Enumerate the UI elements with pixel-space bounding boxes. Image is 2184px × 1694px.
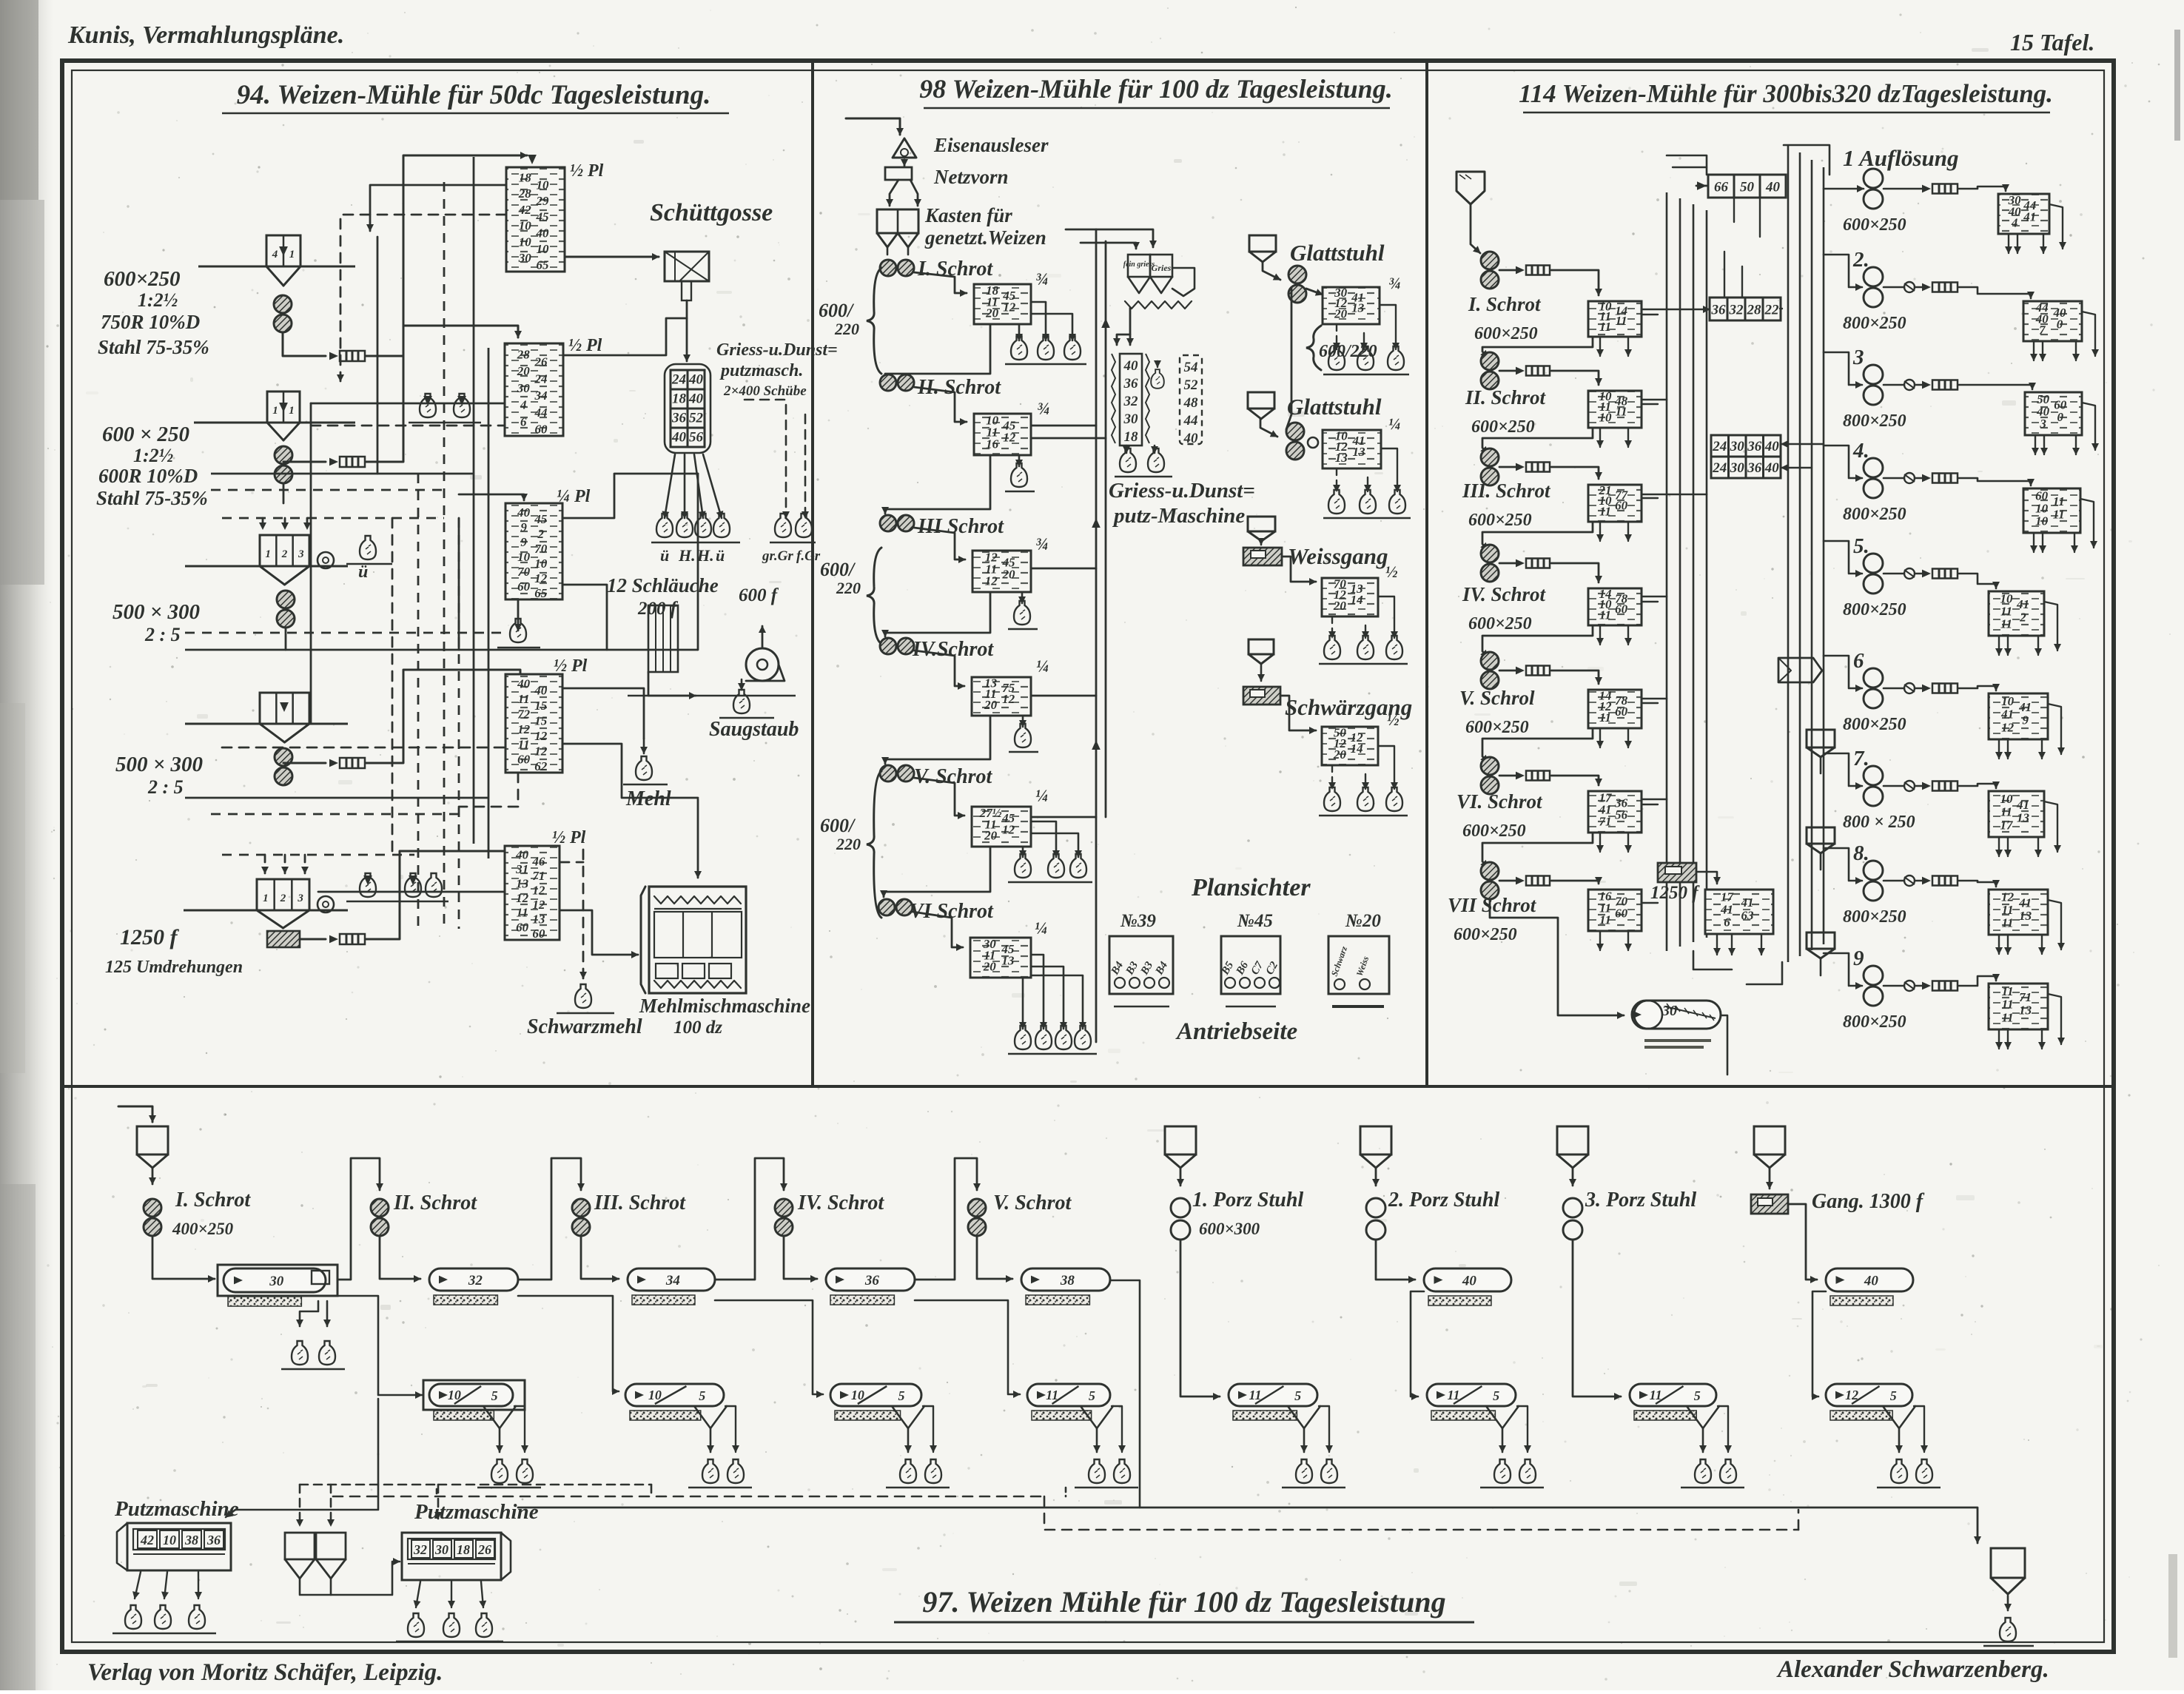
svg-text:32: 32 [1123,394,1139,409]
svg-text:Saugstaub: Saugstaub [709,718,799,741]
reel 10/5 row2 at x845 [625,1384,724,1406]
roller mill passage 3 panel3 [1864,365,1883,384]
roller mill passage 7 panel3 [1864,766,1883,785]
roller mill I Schrot 97 [144,1199,161,1217]
sifter box VII Schrot [1588,890,1642,931]
hopper 1. Porz Stuhl [1165,1126,1196,1154]
svg-text:V. Schrot: V. Schrot [914,765,993,788]
roller mill V. Schrot 97 [968,1199,986,1217]
wire G1 down to G2 [1286,289,1291,429]
svg-text:10: 10 [517,550,531,564]
Netzvorr box [885,167,912,180]
wire extra mesh f [377,237,379,474]
plansifter P5 [505,846,560,940]
svg-text:20: 20 [1334,306,1348,320]
svg-text:¾: ¾ [1037,400,1049,418]
svg-text:№39: №39 [1120,911,1156,931]
sifter I output sacks [1018,326,1021,340]
svg-text:12: 12 [2001,890,2015,904]
hopper D feed line [185,723,348,725]
svg-text:III. Schrot: III. Schrot [1462,480,1551,502]
wire long horizontal y640 [211,473,474,475]
brace 600/220 upper [867,268,881,374]
wire right trunk to Griess dashed [565,392,681,474]
wire E riser to P5 [366,851,518,939]
svg-text:1250 f: 1250 f [1650,883,1700,903]
wire A to sifter P1 [283,333,326,356]
svg-text:40: 40 [1864,1274,1879,1289]
wire VII rolls to reel [1490,900,1624,1015]
sacks near E [360,873,376,897]
svg-text:10: 10 [448,1388,461,1402]
svg-text:60: 60 [517,579,531,594]
svg-text:60: 60 [1615,602,1628,616]
svg-text:1: 1 [272,405,278,417]
roller mill 1. Porz Stuhl [1171,1198,1190,1217]
svg-text:12: 12 [1845,1388,1858,1402]
reel 40 b [1826,1268,1913,1291]
sifter passage 5 outputs [1998,636,2000,655]
connector reel30 to reel row2 no1 [304,1296,422,1395]
svg-text:5: 5 [491,1388,498,1403]
svg-text:800×250: 800×250 [1843,1012,1906,1032]
svg-text:24: 24 [1712,460,1727,476]
sifter box G2 [1323,430,1381,468]
svg-text:65: 65 [534,586,548,600]
sifter box II. Schrot [1588,391,1642,428]
svg-text:36: 36 [864,1273,880,1288]
fan at hopper E [317,896,334,912]
svg-text:60: 60 [532,927,545,941]
wire long horizontal y878 [185,649,286,651]
svg-text:41: 41 [2000,707,2014,722]
svg-text:22: 22 [1764,302,1780,317]
svg-text:30: 30 [1730,439,1745,454]
svg-text:11: 11 [518,737,530,751]
valve D [329,759,338,767]
wire trunk to passage 9 [1824,953,1862,986]
svg-text:12: 12 [516,891,529,905]
sack Saugstaub [741,679,743,690]
svg-text:600/220: 600/220 [1319,342,1377,361]
reel 11/5 row2 at x1660 [1229,1384,1317,1406]
wire loop to IV. Schrot 97 [715,1158,784,1280]
dashed feed to gr sacks [745,400,786,451]
svg-text:11: 11 [1616,314,1627,328]
roller mill passage 4 panel3 [1864,458,1883,477]
panel divider horizontal [64,1085,2112,1088]
wire C out [285,628,287,650]
wire A riser [366,155,527,356]
svg-text:4: 4 [2011,216,2018,230]
svg-text:54: 54 [1184,360,1198,375]
sacks under reel x1928 [1494,1459,1511,1483]
roller mill II Schrot [880,374,896,391]
sifter V sacks [1022,848,1024,857]
panel divider vertical left [811,62,814,1086]
wire IV. Schrot to reel [784,1237,817,1279]
svg-text:32: 32 [1729,302,1744,317]
wire fan to Saugstaub sack [710,696,737,705]
svg-text:9: 9 [2022,713,2029,727]
svg-text:24: 24 [1712,439,1727,454]
roller mill III. Schrot 97 [572,1199,590,1217]
svg-text:Gang. 1300 f: Gang. 1300 f [1812,1190,1925,1213]
svg-text:Kunis, Vermahlungspläne.: Kunis, Vermahlungspläne. [67,21,344,49]
central trunk group B verticals [1787,145,1790,962]
long collection wire solid [518,1508,1978,1543]
wire III to sifter [914,528,965,559]
Mehlmischmaschine body [649,887,746,993]
svg-text:28: 28 [517,347,531,361]
svg-text:¼: ¼ [1388,414,1401,433]
wire Schwaerzgang to box [1280,696,1316,730]
funnel under reel at x1928 [1486,1406,1519,1428]
svg-text:20: 20 [983,960,997,974]
svg-text:65: 65 [536,258,549,272]
wire E out [300,938,326,941]
svg-text:12: 12 [534,571,548,585]
sifter III. Schrot output arrows [1599,522,1601,541]
reel 34 [628,1268,715,1291]
Schuettgosse box [665,252,709,281]
svg-text:Schwarzmehl: Schwarzmehl [527,1015,642,1038]
svg-text:Putzmaschine: Putzmaschine [114,1497,239,1521]
grid box 24 30 36 40 double [1711,435,1729,457]
svg-text:600 × 250: 600 × 250 [102,423,189,446]
svg-text:6: 6 [1853,649,1864,673]
zigzag sieve strip [1125,301,1192,309]
hopper panel3 top left [1456,172,1485,204]
panel divider vertical right [1425,62,1428,1086]
svg-text:V. Schrol: V. Schrol [1459,687,1535,709]
hopper E [257,879,309,910]
sifter box passage 7 [1989,791,2044,837]
svg-text:62: 62 [534,759,548,773]
svg-text:1 Auflösung: 1 Auflösung [1843,145,1959,171]
svg-text:11: 11 [517,906,528,920]
svg-text:VII Schrot: VII Schrot [1448,894,1537,916]
wire II. Schrot to reel [380,1237,420,1279]
svg-text:41: 41 [2018,700,2032,714]
wire passage 6 to sifter [1904,683,1915,693]
svg-text:10: 10 [2001,694,2015,708]
svg-text:½: ½ [1387,710,1400,729]
return wire I to II [885,324,990,386]
svg-text:38: 38 [184,1533,198,1547]
G1 sacks [1336,324,1337,349]
plansifter P4 [505,674,562,773]
svg-text:52: 52 [1184,377,1199,393]
wires to Kasten [890,180,898,206]
svg-text:40: 40 [534,684,548,698]
tube bundle 12 Schlaeuche [648,605,678,672]
svg-text:40: 40 [517,676,531,690]
svg-text:600/: 600/ [820,559,856,580]
svg-text:10: 10 [536,242,549,256]
svg-text:20: 20 [985,306,999,320]
svg-text:32: 32 [413,1542,427,1557]
feingriess hopper left [1128,255,1150,277]
Gang 1300f stone [1751,1194,1788,1214]
detacheur tall box [1120,354,1142,446]
Schwaerzgang gang stone [1243,687,1280,705]
svg-text:41: 41 [2016,597,2029,611]
svg-text:42: 42 [518,203,532,217]
svg-text:9: 9 [520,535,527,549]
wire passage 1 to sifter [1884,188,1924,190]
wire passage 4 to sifter [1904,473,1915,483]
svg-text:13: 13 [516,877,529,891]
hopper B feed line [194,422,355,424]
wire extra mesh g [392,518,394,855]
svg-text:IV. Schrot: IV. Schrot [797,1191,884,1214]
svg-text:11: 11 [1599,608,1611,622]
svg-text:36: 36 [671,411,687,426]
svg-text:20: 20 [1333,599,1347,613]
funnel under reel at x1388 [1081,1406,1113,1428]
hopper Weissgang [1248,517,1275,531]
wire passage 9 to sifter [1904,981,1915,991]
wire II to sifter [914,387,967,422]
sifter box IV [972,677,1031,716]
svg-text:34: 34 [665,1273,680,1288]
svg-text:60: 60 [1615,907,1628,921]
trunk horizontal ties [1642,309,1710,311]
svg-text:11: 11 [1046,1388,1058,1402]
wire dashed vertical x620 [458,518,460,929]
sifter IV sack [1022,717,1024,727]
svg-text:220: 220 [836,579,861,597]
hopper A feed line [198,266,355,268]
svg-text:60: 60 [1615,705,1628,719]
valve IV. Schrot [1499,562,1516,565]
hopper D [260,693,309,724]
svg-text:52: 52 [689,411,704,426]
hopper C feed line [185,565,348,568]
sifter box passage 8 [1989,890,2048,935]
svg-text:600×250: 600×250 [1468,511,1532,530]
brace 600/220 G1 [1306,326,1321,370]
svg-text:1. Porz Stuhl: 1. Porz Stuhl [1192,1189,1303,1211]
svg-text:13: 13 [1352,445,1365,459]
sifter box passage 4 [2023,488,2080,533]
svg-text:№20: №20 [1345,911,1381,931]
svg-text:Mehl: Mehl [625,787,671,810]
svg-text:11: 11 [2053,494,2065,508]
svg-text:13: 13 [1001,953,1015,967]
svg-text:Stahl 75-35%: Stahl 75-35% [98,336,209,358]
Weissgang gang stone [1243,548,1282,565]
svg-text:32: 32 [468,1273,483,1288]
funnel under reel at x1660 [1288,1406,1320,1428]
svg-text:20: 20 [1333,747,1347,762]
svg-text:41: 41 [2023,209,2036,223]
connector reel36 to row2 no4 [915,1300,1020,1394]
svg-text:f.Gr: f.Gr [796,548,821,564]
valve I. Schrot [1499,269,1516,272]
svg-text:40: 40 [535,226,549,240]
svg-text:600×250: 600×250 [104,267,181,291]
svg-text:H.: H. [678,546,696,565]
svg-text:6: 6 [520,414,527,428]
reel 40 a [1424,1268,1511,1291]
svg-text:600/: 600/ [819,300,855,321]
wire dashed hopper feeds top [262,518,264,529]
svg-text:1250 f: 1250 f [120,925,180,949]
svg-text:38: 38 [1060,1273,1075,1288]
svg-text:12: 12 [1003,431,1016,445]
roller mill passage 6 panel3 [1864,668,1883,688]
svg-text:29: 29 [535,194,549,208]
wire long horizontal y855 dashed [185,632,503,634]
detacheur zigzag sides [1112,354,1115,443]
svg-text:600/: 600/ [820,815,856,836]
svg-text:4.: 4. [1852,439,1869,463]
svg-text:ü: ü [660,546,669,565]
svg-text:600×250: 600×250 [1454,925,1517,944]
svg-text:36: 36 [1123,376,1139,391]
dashed drop to Schwarzmehl [582,850,585,978]
svg-text:14: 14 [1351,742,1363,756]
svg-text:40: 40 [1123,358,1139,374]
svg-text:45: 45 [534,512,548,526]
wire vertical feed x943 upper [697,474,699,650]
wire long horizontal y1078 [185,797,488,799]
svg-text:11: 11 [2053,507,2065,521]
svg-text:24: 24 [671,372,686,388]
svg-text:¼: ¼ [1035,919,1047,938]
hopper above passage 7 [1807,730,1835,747]
svg-text:Stahl 75-35%: Stahl 75-35% [96,487,208,509]
svg-text:56: 56 [689,430,704,446]
svg-text:800×250: 800×250 [1843,314,1906,333]
sifter box passage 9 [1989,984,2048,1029]
wire porz3 to its row2 reel [1573,1240,1621,1396]
svg-text:7: 7 [2039,323,2046,337]
wire VI. Schrot to sifter [1551,776,1599,785]
svg-text:600×300: 600×300 [1199,1220,1260,1238]
reel 30 outlet sacks [300,1301,318,1326]
central trunk verticals [1095,229,1098,1042]
sacks under reel x1660 [1296,1459,1312,1483]
svg-text:15: 15 [534,699,548,713]
svg-text:Mehlmischmaschine: Mehlmischmaschine [639,995,810,1017]
svg-text:600×250: 600×250 [1843,215,1906,235]
svg-text:9: 9 [1853,947,1864,970]
svg-text:36: 36 [1747,439,1762,454]
wire I. Schrot to sifter [1551,270,1599,295]
svg-text:40: 40 [517,505,531,520]
svg-text:13: 13 [532,912,545,927]
tube bundle outlet [648,672,696,696]
svg-text:40: 40 [688,372,704,388]
funnel under reel at x1122 [892,1406,924,1428]
roller mill D [275,748,292,766]
hopper Schwaerzgang [1249,639,1274,654]
brace 600/220 mid [867,548,881,644]
svg-text:10: 10 [534,557,548,571]
wire V. Schrol to sifter [1551,670,1599,684]
wire top bundle horizontals [1784,145,1829,175]
svg-text:15: 15 [534,714,548,728]
Putzmaschine 2 sacks [416,1582,420,1607]
svg-text:12 Schläuche: 12 Schläuche [607,574,719,596]
svg-text:9: 9 [520,520,527,534]
svg-text:11: 11 [518,692,530,706]
sacks under reel x2202 [1695,1459,1711,1483]
wire trunk to passage 6 [1824,656,1862,688]
svg-text:2: 2 [281,548,288,560]
svg-text:1:2½: 1:2½ [133,445,173,466]
svg-text:11: 11 [2002,1010,2014,1024]
sifter III sack [1021,594,1024,603]
hopper B [267,391,300,423]
return wire IV. Schrot loop [1482,625,1593,657]
svg-text:7.: 7. [1853,747,1869,770]
svg-text:II. Schrot: II. Schrot [1465,386,1547,409]
sifter IV. Schrot output arrows [1599,625,1601,645]
svg-text:5: 5 [1294,1388,1301,1403]
svg-text:98 Weizen-Mühle für 100 dz Tag: 98 Weizen-Mühle für 100 dz Tagesleistung… [919,74,1392,104]
wire C to P3 [286,649,459,651]
wire reel40a to its row2 reel [1411,1291,1424,1396]
svg-text:3. Porz Stuhl: 3. Porz Stuhl [1585,1189,1696,1211]
svg-text:36: 36 [1747,460,1762,476]
svg-text:800×250: 800×250 [1843,411,1906,431]
svg-text:11: 11 [1599,320,1611,334]
hopper above passage 8 [1807,827,1835,844]
svg-text:800×250: 800×250 [1843,715,1906,734]
wire P2 right to trunk [563,318,687,355]
svg-text:70: 70 [517,565,531,579]
svg-text:31: 31 [515,862,528,876]
Putzmaschine 1 sacks [135,1572,141,1599]
sifter box Weissgang [1322,578,1378,616]
hopper C [260,535,309,566]
return wire V. Schrol loop [1482,728,1593,762]
return wire V to VI [884,847,990,897]
svg-text:12: 12 [534,729,548,743]
roller mill II. Schrot 97 [371,1199,389,1217]
sifter box VI [970,938,1031,978]
valve V. Schrol [1499,670,1516,672]
svg-text:H.: H. [696,546,714,565]
funnel under reel at x2467 [1883,1406,1915,1428]
roller mill III Schrot [880,515,896,531]
sack at C [360,536,376,559]
svg-text:10: 10 [648,1388,662,1402]
sifter box passage 5 [1989,591,2044,636]
svg-text:14: 14 [1351,593,1363,607]
collector hopper bottom right [1991,1548,2025,1578]
svg-text:72: 72 [517,707,531,721]
roller mill passage 1 panel3 [1864,169,1883,188]
svg-text:41: 41 [2018,896,2032,910]
svg-text:Griess-u.Dunst=: Griess-u.Dunst= [1109,479,1255,503]
svg-text:800×250: 800×250 [1843,907,1906,927]
svg-text:40: 40 [1183,431,1199,446]
sifter box IV. Schrot [1588,588,1642,625]
sack under P3 [510,619,526,642]
sifter box passage 1 [1998,194,2049,234]
svg-text:71: 71 [2019,990,2032,1004]
svg-text:5: 5 [1493,1388,1499,1403]
branch to Putzmaschine 1 [224,1395,378,1519]
sifter box III. Schrot [1588,485,1642,522]
svg-text:100 dz: 100 dz [673,1018,722,1038]
roller mill VII Schrot panel3 [1481,862,1499,880]
